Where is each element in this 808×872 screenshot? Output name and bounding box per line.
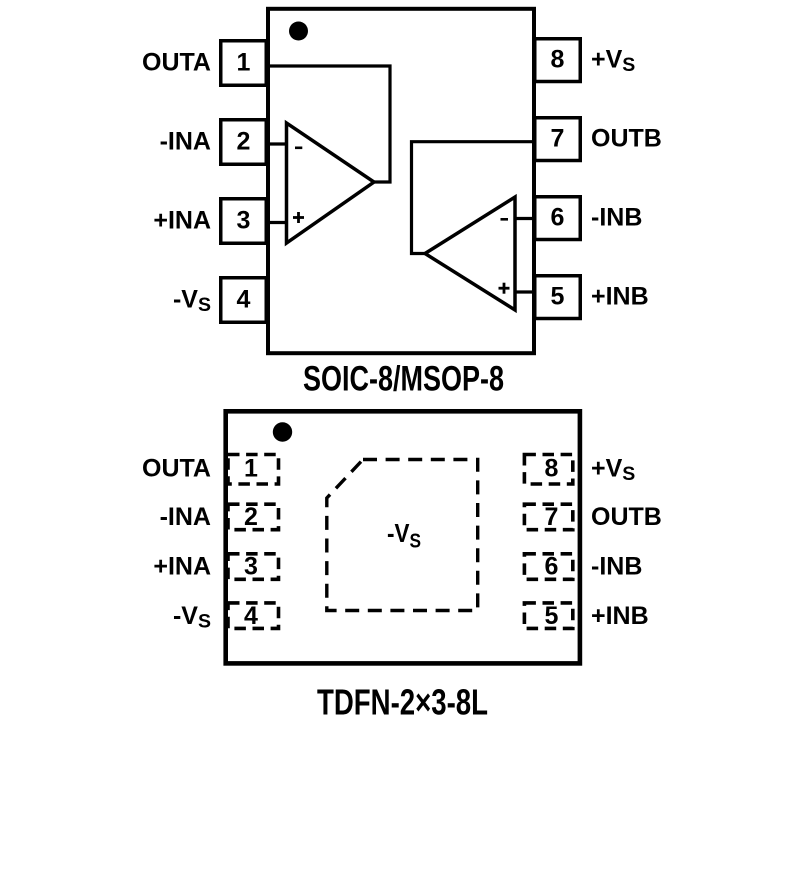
svg-text:+INB: +INB — [591, 602, 649, 630]
svg-text:1: 1 — [237, 49, 251, 77]
svg-text:-VS: -VS — [173, 602, 211, 633]
svg-text:+INA: +INA — [153, 207, 211, 235]
svg-text:+INB: +INB — [591, 283, 649, 311]
svg-text:3: 3 — [237, 207, 251, 235]
svg-text:4: 4 — [244, 602, 258, 630]
svg-text:8: 8 — [545, 455, 559, 483]
svg-text:-INA: -INA — [160, 128, 211, 156]
svg-text:6: 6 — [551, 204, 565, 232]
svg-text:OUTB: OUTB — [591, 503, 662, 531]
svg-text:7: 7 — [545, 503, 559, 531]
svg-text:-VS: -VS — [387, 518, 421, 553]
svg-text:5: 5 — [551, 283, 565, 311]
svg-text:OUTA: OUTA — [142, 49, 211, 77]
svg-text:-INB: -INB — [591, 204, 642, 232]
svg-text:2: 2 — [237, 128, 251, 156]
svg-text:-INA: -INA — [160, 503, 211, 531]
svg-text:+VS: +VS — [591, 455, 635, 486]
svg-text:5: 5 — [545, 602, 559, 630]
svg-text:1: 1 — [244, 455, 258, 483]
svg-text:8: 8 — [551, 46, 565, 74]
svg-text:3: 3 — [244, 553, 258, 581]
svg-text:7: 7 — [551, 125, 565, 153]
svg-text:OUTB: OUTB — [591, 125, 662, 153]
svg-text:+VS: +VS — [591, 46, 635, 77]
svg-text:-VS: -VS — [173, 286, 211, 317]
svg-text:TDFN-2×3-8L: TDFN-2×3-8L — [317, 681, 488, 722]
svg-text:OUTA: OUTA — [142, 455, 211, 483]
svg-text:4: 4 — [237, 286, 251, 314]
svg-text:-INB: -INB — [591, 553, 642, 581]
svg-text:2: 2 — [244, 503, 258, 531]
svg-text:6: 6 — [545, 553, 559, 581]
svg-text:SOIC-8/MSOP-8: SOIC-8/MSOP-8 — [303, 360, 504, 399]
svg-text:+INA: +INA — [153, 553, 211, 581]
